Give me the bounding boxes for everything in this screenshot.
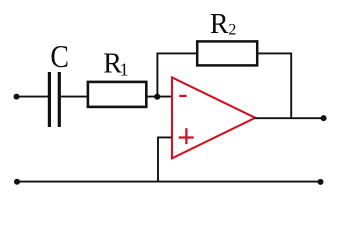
resistor R1: [88, 82, 146, 107]
wire R1 to op-amp inverting input: [147, 96, 172, 98]
op-amp U1 triangle: [172, 77, 255, 158]
capacitor C plates: [49, 72, 59, 127]
bottom-right terminal dot: [318, 179, 324, 185]
resistor R2: [197, 41, 257, 65]
op-amp minus sign: [179, 95, 186, 97]
svg-text:2: 2: [228, 21, 236, 38]
wire R2 to output (feedback right): [258, 53, 291, 117]
svg-text:C: C: [50, 39, 69, 74]
wire capacitor to R1: [61, 96, 88, 98]
op-amp plus sign: [179, 128, 194, 144]
svg-text:R: R: [210, 9, 229, 40]
wire node up to R2 (feedback left): [157, 53, 196, 96]
wire non-inverting input to bottom rail: [158, 137, 172, 181]
wire input to capacitor: [17, 96, 49, 98]
bottom-left terminal dot: [14, 179, 20, 185]
label C: [50, 39, 69, 74]
svg-text:1: 1: [120, 60, 129, 80]
node junction at inverting input: [154, 94, 160, 100]
output wire: [255, 117, 324, 119]
input terminal dot: [14, 94, 20, 100]
bottom rail wire: [17, 181, 321, 183]
output terminal dot: [321, 115, 327, 121]
